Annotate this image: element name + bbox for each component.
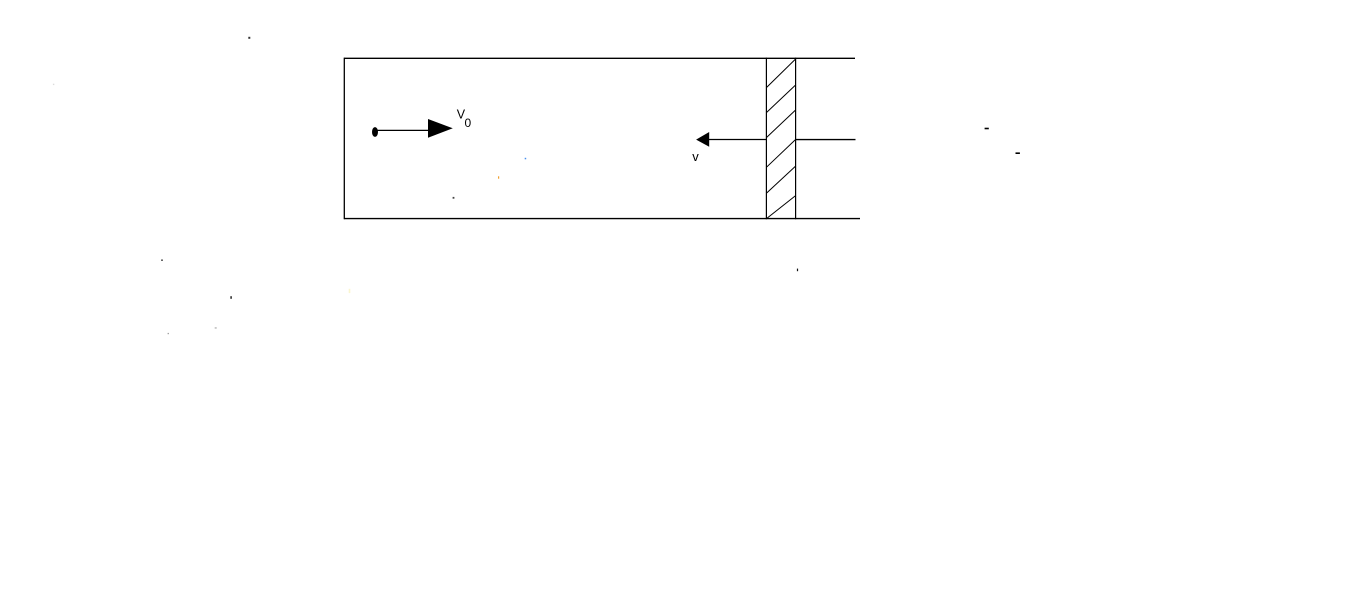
speck comma	[230, 296, 232, 299]
speck orange	[498, 176, 499, 178]
speck top left	[248, 37, 250, 39]
piston velocity arrow shaft	[709, 139, 767, 141]
piston rod	[796, 139, 856, 141]
piston velocity arrowhead	[696, 132, 709, 147]
svg-text:0: 0	[465, 116, 472, 130]
speck faint small	[168, 333, 169, 334]
particle velocity arrow shaft	[377, 129, 429, 131]
particle velocity arrowhead	[428, 119, 453, 138]
svg-text:v: v	[692, 149, 699, 164]
cylinder bottom wall	[344, 218, 860, 220]
piston hatch line 2	[766, 85, 795, 113]
speck pale yellow	[349, 289, 351, 293]
piston hatch line 1	[766, 59, 795, 88]
piston hatch line 3	[766, 110, 795, 138]
dash mark right lower	[1016, 152, 1020, 154]
speck mid left	[161, 259, 163, 261]
piston hatch line 4	[766, 140, 795, 168]
speck below piston	[797, 269, 798, 272]
cylinder top wall	[344, 57, 855, 59]
speck faint pair	[215, 327, 217, 329]
speck faint far left	[53, 84, 54, 85]
speck below arrow	[453, 197, 455, 199]
piston right face	[795, 58, 797, 220]
piston left face	[765, 58, 767, 220]
piston hatch line 5	[766, 166, 795, 193]
piston hatch line 6	[767, 196, 796, 219]
gas particle	[372, 127, 378, 137]
speck blue	[525, 158, 527, 160]
cylinder left wall	[343, 58, 345, 220]
dash mark right upper	[985, 128, 989, 130]
